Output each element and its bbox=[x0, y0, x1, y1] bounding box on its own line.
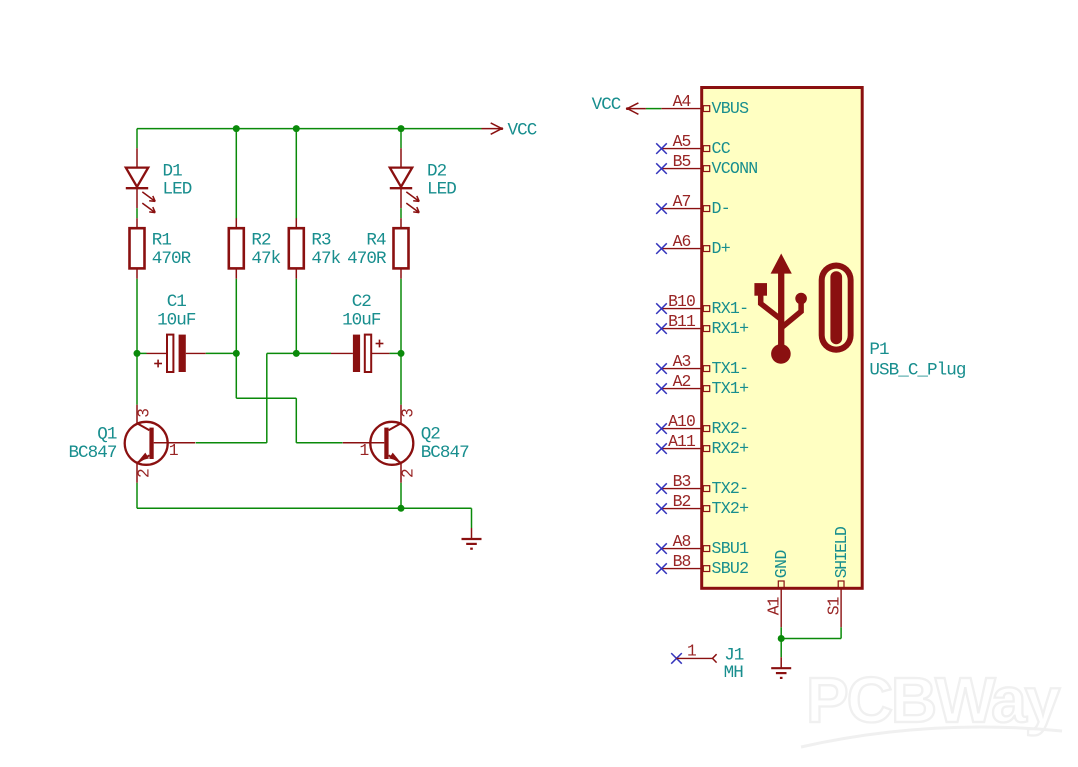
svg-text:C1: C1 bbox=[167, 292, 187, 312]
svg-text:C2: C2 bbox=[352, 292, 372, 312]
svg-text:A1: A1 bbox=[764, 596, 783, 615]
svg-text:A8: A8 bbox=[673, 532, 691, 551]
svg-text:Q1: Q1 bbox=[97, 425, 117, 445]
svg-text:B11: B11 bbox=[668, 312, 696, 331]
svg-text:RX2-: RX2- bbox=[712, 419, 749, 438]
svg-text:3: 3 bbox=[399, 408, 417, 418]
svg-text:D+: D+ bbox=[712, 239, 730, 258]
svg-text:TX2-: TX2- bbox=[712, 479, 749, 498]
svg-text:SHIELD: SHIELD bbox=[832, 527, 851, 578]
svg-text:R1: R1 bbox=[152, 231, 172, 251]
svg-text:R2: R2 bbox=[251, 231, 271, 251]
svg-text:RX1-: RX1- bbox=[712, 299, 749, 318]
svg-text:A5: A5 bbox=[673, 132, 691, 151]
svg-text:VCONN: VCONN bbox=[712, 159, 758, 178]
svg-text:10uF: 10uF bbox=[157, 311, 196, 331]
svg-text:SBU2: SBU2 bbox=[712, 559, 749, 578]
svg-text:10uF: 10uF bbox=[342, 311, 381, 331]
svg-text:PCBWay: PCBWay bbox=[806, 664, 1061, 736]
svg-text:MH: MH bbox=[724, 663, 744, 683]
svg-text:TX1-: TX1- bbox=[712, 359, 749, 378]
svg-text:BC847: BC847 bbox=[68, 443, 116, 463]
svg-text:470R: 470R bbox=[347, 249, 387, 269]
svg-text:47k: 47k bbox=[311, 249, 340, 269]
svg-text:Q2: Q2 bbox=[421, 425, 441, 445]
svg-text:GND: GND bbox=[772, 550, 791, 578]
svg-text:B10: B10 bbox=[668, 292, 695, 311]
svg-text:D-: D- bbox=[712, 199, 730, 218]
svg-text:1: 1 bbox=[359, 442, 369, 460]
svg-text:TX2+: TX2+ bbox=[712, 499, 749, 518]
svg-text:A7: A7 bbox=[673, 192, 691, 211]
svg-text:USB_C_Plug: USB_C_Plug bbox=[869, 360, 965, 380]
svg-text:D2: D2 bbox=[427, 161, 447, 181]
svg-text:RX2+: RX2+ bbox=[712, 439, 749, 458]
svg-text:B8: B8 bbox=[673, 552, 691, 571]
svg-text:LED: LED bbox=[163, 180, 192, 200]
svg-text:47k: 47k bbox=[251, 249, 280, 269]
svg-text:B5: B5 bbox=[673, 152, 691, 171]
svg-text:A4: A4 bbox=[673, 92, 691, 111]
svg-text:A2: A2 bbox=[673, 372, 691, 391]
svg-text:SBU1: SBU1 bbox=[712, 539, 750, 558]
svg-text:VCC: VCC bbox=[508, 121, 537, 141]
svg-text:TX1+: TX1+ bbox=[712, 379, 749, 398]
svg-text:B3: B3 bbox=[673, 472, 691, 491]
svg-text:LED: LED bbox=[427, 180, 456, 200]
svg-text:D1: D1 bbox=[163, 161, 183, 181]
svg-text:BC847: BC847 bbox=[421, 443, 469, 463]
svg-text:P1: P1 bbox=[869, 340, 889, 360]
svg-text:1: 1 bbox=[687, 643, 697, 661]
svg-text:2: 2 bbox=[135, 468, 153, 478]
svg-text:RX1+: RX1+ bbox=[712, 319, 749, 338]
svg-text:A11: A11 bbox=[668, 432, 696, 451]
svg-text:A3: A3 bbox=[673, 352, 691, 371]
svg-text:S1: S1 bbox=[824, 596, 843, 615]
svg-text:A10: A10 bbox=[668, 412, 695, 431]
svg-text:470R: 470R bbox=[152, 249, 192, 269]
svg-text:CC: CC bbox=[712, 139, 731, 158]
svg-text:3: 3 bbox=[135, 408, 153, 418]
svg-text:2: 2 bbox=[399, 468, 417, 478]
svg-text:VBUS: VBUS bbox=[712, 99, 750, 118]
svg-text:R3: R3 bbox=[311, 231, 331, 251]
svg-text:1: 1 bbox=[169, 442, 179, 460]
svg-text:R4: R4 bbox=[366, 231, 386, 251]
svg-text:B2: B2 bbox=[673, 492, 691, 511]
svg-text:A6: A6 bbox=[673, 232, 691, 251]
svg-text:VCC: VCC bbox=[592, 95, 621, 115]
